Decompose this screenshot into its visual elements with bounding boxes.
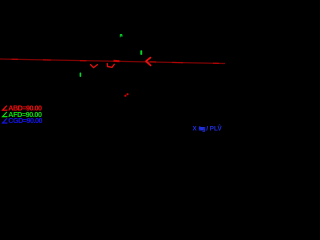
svg-text:/: /: [206, 126, 208, 133]
svg-text:X: X: [193, 125, 198, 132]
svg-text:PLV̂: PLV̂: [210, 125, 223, 132]
svg-text:sheng: sheng: [198, 125, 206, 132]
svg-text:CGD=90.00: CGD=90.00: [8, 116, 42, 125]
